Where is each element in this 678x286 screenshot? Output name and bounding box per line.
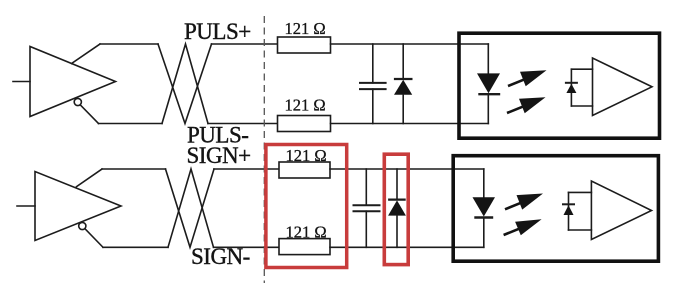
svg-text:SIGN-: SIGN- bbox=[191, 244, 250, 269]
svg-text:121 Ω: 121 Ω bbox=[286, 146, 327, 165]
svg-text:PULS+: PULS+ bbox=[184, 19, 251, 44]
svg-text:121 Ω: 121 Ω bbox=[285, 19, 326, 38]
svg-text:SIGN+: SIGN+ bbox=[187, 143, 251, 168]
svg-text:121 Ω: 121 Ω bbox=[285, 95, 326, 114]
svg-text:121 Ω: 121 Ω bbox=[286, 223, 327, 242]
